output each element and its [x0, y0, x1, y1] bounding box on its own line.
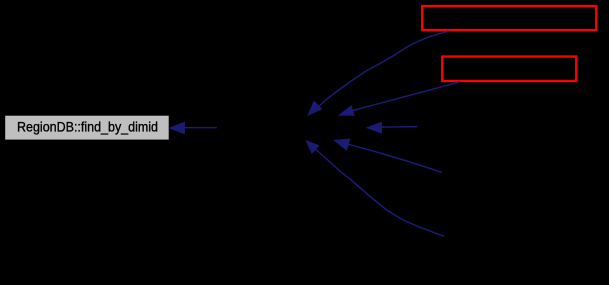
node RegionDB::find_by_dimid: [5, 116, 169, 140]
wire edge 1: red node 1 to hidden caller: [308, 31, 449, 115]
wire edge A: hidden caller to RegionDB::find_by_dimid: [170, 122, 217, 134]
red node 1 (truncated caller): [422, 6, 596, 30]
svg-text:RegionDB::find_by_dimid: RegionDB::find_by_dimid: [17, 118, 158, 134]
red node 2 (truncated caller): [442, 57, 576, 82]
wire edge 2: red node 2 to hidden caller: [339, 82, 460, 116]
wire edge 5: hidden caller node to hidden caller: [306, 141, 444, 237]
wire edge 3: hidden caller node to hidden caller: [367, 122, 418, 133]
wire edge 4: hidden caller node to hidden caller: [334, 139, 442, 172]
